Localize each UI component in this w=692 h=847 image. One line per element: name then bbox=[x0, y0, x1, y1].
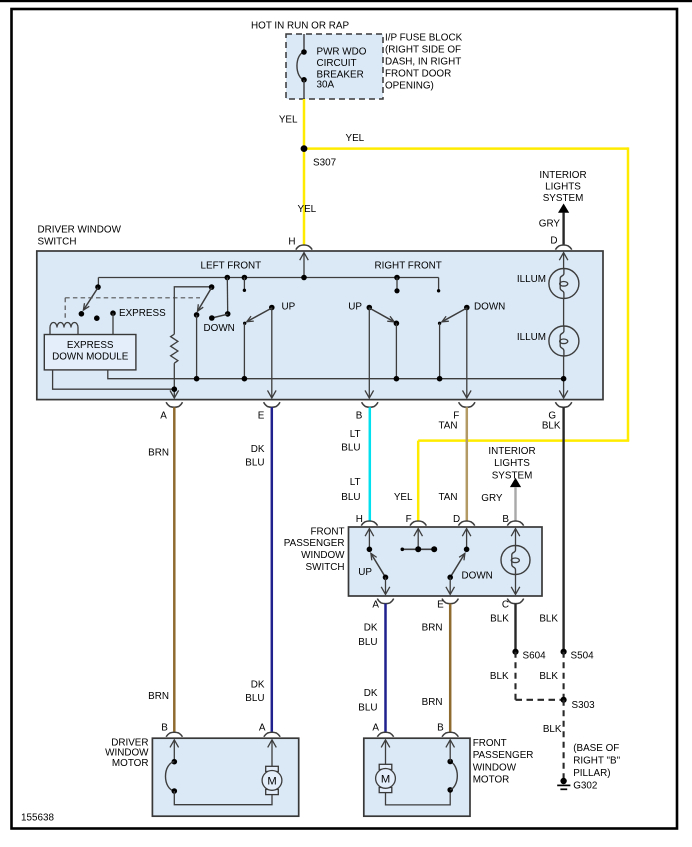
svg-text:A: A bbox=[372, 723, 379, 734]
svg-text:155638: 155638 bbox=[21, 813, 54, 824]
svg-text:A: A bbox=[372, 600, 379, 611]
svg-text:BLK: BLK bbox=[490, 614, 509, 625]
svg-text:BLK: BLK bbox=[539, 614, 558, 625]
svg-text:B: B bbox=[161, 723, 168, 734]
svg-text:BLK: BLK bbox=[542, 421, 561, 432]
svg-text:DASH, IN RIGHT: DASH, IN RIGHT bbox=[385, 57, 461, 68]
svg-text:BLU: BLU bbox=[245, 693, 264, 704]
svg-text:LT: LT bbox=[350, 477, 361, 488]
svg-text:YEL: YEL bbox=[394, 492, 413, 503]
svg-text:BRN: BRN bbox=[422, 622, 443, 633]
svg-text:BLK: BLK bbox=[539, 671, 558, 682]
svg-text:H: H bbox=[356, 514, 363, 525]
svg-text:BRN: BRN bbox=[148, 691, 169, 702]
svg-text:DK: DK bbox=[364, 688, 378, 699]
svg-text:BLK: BLK bbox=[543, 724, 562, 735]
svg-text:LIGHTS: LIGHTS bbox=[494, 458, 530, 469]
svg-text:BLU: BLU bbox=[245, 458, 264, 469]
svg-text:BLU: BLU bbox=[341, 492, 360, 503]
svg-text:INTERIOR: INTERIOR bbox=[488, 446, 535, 457]
svg-text:DRIVER WINDOW: DRIVER WINDOW bbox=[38, 225, 122, 236]
svg-text:H: H bbox=[288, 237, 295, 248]
svg-text:YEL: YEL bbox=[279, 115, 298, 126]
svg-text:M: M bbox=[267, 775, 276, 787]
svg-text:MOTOR: MOTOR bbox=[112, 758, 149, 769]
svg-text:FRONT: FRONT bbox=[310, 527, 344, 538]
svg-text:C: C bbox=[502, 600, 509, 611]
svg-text:FRONT DOOR: FRONT DOOR bbox=[385, 68, 451, 79]
svg-text:SYSTEM: SYSTEM bbox=[492, 470, 533, 481]
svg-text:DOWN: DOWN bbox=[462, 571, 493, 582]
svg-text:SYSTEM: SYSTEM bbox=[543, 193, 584, 204]
svg-text:B: B bbox=[356, 411, 363, 422]
svg-text:RIGHT "B": RIGHT "B" bbox=[573, 755, 620, 766]
svg-text:ILLUM: ILLUM bbox=[517, 274, 546, 285]
svg-text:RIGHT FRONT: RIGHT FRONT bbox=[375, 261, 442, 272]
svg-text:OPENING): OPENING) bbox=[385, 80, 434, 91]
svg-text:E: E bbox=[437, 600, 444, 611]
svg-text:BLU: BLU bbox=[358, 637, 377, 648]
svg-text:DOWN MODULE: DOWN MODULE bbox=[52, 352, 129, 363]
svg-text:BRN: BRN bbox=[148, 448, 169, 459]
svg-text:SWITCH: SWITCH bbox=[306, 562, 345, 573]
svg-text:WINDOW: WINDOW bbox=[473, 762, 517, 773]
svg-text:TAN: TAN bbox=[438, 492, 457, 503]
svg-text:PASSENGER: PASSENGER bbox=[284, 538, 345, 549]
svg-text:YEL: YEL bbox=[298, 204, 317, 215]
svg-text:UP: UP bbox=[282, 302, 296, 313]
svg-text:CIRCUIT: CIRCUIT bbox=[317, 58, 357, 69]
svg-text:GRY: GRY bbox=[539, 219, 561, 230]
svg-text:S504: S504 bbox=[571, 651, 595, 662]
svg-text:PILLAR): PILLAR) bbox=[573, 768, 610, 779]
svg-text:M: M bbox=[381, 773, 390, 785]
svg-text:I/P FUSE BLOCK: I/P FUSE BLOCK bbox=[385, 33, 463, 44]
svg-text:(RIGHT SIDE OF: (RIGHT SIDE OF bbox=[385, 45, 461, 56]
svg-text:UP: UP bbox=[358, 567, 372, 578]
svg-text:PWR WDO: PWR WDO bbox=[317, 47, 367, 58]
svg-text:UP: UP bbox=[348, 302, 362, 313]
svg-text:DOWN: DOWN bbox=[204, 323, 235, 334]
svg-text:BLU: BLU bbox=[358, 703, 377, 714]
svg-text:INTERIOR: INTERIOR bbox=[539, 170, 586, 181]
svg-text:30A: 30A bbox=[317, 80, 335, 91]
svg-text:S303: S303 bbox=[572, 700, 596, 711]
svg-text:A: A bbox=[259, 723, 266, 734]
svg-text:(BASE OF: (BASE OF bbox=[573, 743, 619, 754]
svg-text:D: D bbox=[550, 236, 557, 247]
svg-text:E: E bbox=[258, 411, 265, 422]
svg-text:LT: LT bbox=[350, 429, 361, 440]
svg-text:YEL: YEL bbox=[346, 133, 365, 144]
svg-text:DK: DK bbox=[364, 622, 378, 633]
svg-text:FRONT: FRONT bbox=[473, 738, 507, 749]
svg-text:EXPRESS: EXPRESS bbox=[119, 308, 166, 319]
svg-text:D: D bbox=[453, 514, 460, 525]
svg-text:WINDOW: WINDOW bbox=[301, 550, 345, 561]
svg-text:PASSENGER: PASSENGER bbox=[473, 750, 534, 761]
svg-text:BLU: BLU bbox=[341, 443, 360, 454]
svg-text:S604: S604 bbox=[523, 651, 547, 662]
svg-text:BLK: BLK bbox=[490, 671, 509, 682]
svg-text:ILLUM: ILLUM bbox=[517, 332, 546, 343]
svg-text:DOWN: DOWN bbox=[474, 302, 505, 313]
svg-text:TAN: TAN bbox=[438, 421, 457, 432]
svg-text:S307: S307 bbox=[313, 158, 336, 169]
svg-text:BRN: BRN bbox=[422, 697, 443, 708]
svg-text:SWITCH: SWITCH bbox=[38, 237, 77, 248]
svg-text:LIGHTS: LIGHTS bbox=[545, 182, 581, 193]
svg-text:DK: DK bbox=[251, 679, 265, 690]
svg-text:EXPRESS: EXPRESS bbox=[67, 340, 114, 351]
svg-text:DK: DK bbox=[251, 444, 265, 455]
svg-text:G302: G302 bbox=[573, 780, 597, 791]
svg-text:MOTOR: MOTOR bbox=[473, 774, 510, 785]
svg-text:LEFT FRONT: LEFT FRONT bbox=[201, 261, 262, 272]
svg-text:B: B bbox=[437, 723, 444, 734]
svg-text:GRY: GRY bbox=[481, 493, 503, 504]
svg-text:HOT IN RUN OR RAP: HOT IN RUN OR RAP bbox=[251, 21, 349, 32]
svg-text:A: A bbox=[160, 411, 167, 422]
